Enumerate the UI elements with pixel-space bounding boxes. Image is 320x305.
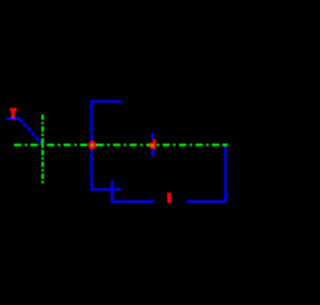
- right vertical link (blue): [224, 146, 227, 202]
- lever arm diagonal segment (blue, pixel-stepped look): [19, 118, 43, 144]
- arrowhead down on frame vertical: [89, 184, 93, 189]
- slider joint ring (red): [150, 143, 154, 147]
- arrowhead right at end of top member: [119, 101, 124, 104]
- push-button plunger cap (red T head): [10, 108, 17, 111]
- lever arm horizontal segment (blue): [6, 117, 20, 120]
- pivot joint ring (red, on frame vertical): [90, 143, 95, 148]
- slider joint stem (red vertical bar): [153, 139, 156, 149]
- centerline horizontal end dash: [222, 144, 227, 147]
- push-button plunger stem: [11, 111, 15, 118]
- motion arrow up at slider joint: [150, 131, 154, 136]
- frame left vertical member (blue): [90, 100, 92, 190]
- centerline vertical (green dash-dot through pivot): [41, 115, 44, 185]
- damper piston plate (red bar in gap): [167, 193, 171, 203]
- centerline horizontal (green dash-dot main axis): [14, 144, 221, 147]
- damper rod right segment: [187, 200, 227, 203]
- tick on right vertical link: [227, 194, 229, 197]
- motion arrow down at slider joint: [152, 148, 154, 152]
- frame bottom horizontal member: [90, 188, 121, 190]
- connecting rod vertical (blue short link): [111, 180, 114, 203]
- arrowhead up on frame vertical: [89, 102, 93, 107]
- damper rod left segment (blue bottom line): [111, 200, 154, 203]
- frame top horizontal member: [90, 100, 121, 102]
